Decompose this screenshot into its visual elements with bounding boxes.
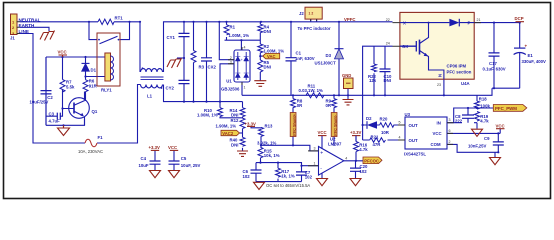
- IPM module U4A: [386, 12, 481, 87]
- svg-text:D3: D3: [326, 53, 332, 58]
- svg-text:5.5k: 5.5k: [66, 84, 75, 89]
- wire choke top left riser: [139, 22, 141, 72]
- svg-text:J1: J1: [10, 36, 15, 41]
- svg-text:CP06 IPM: CP06 IPM: [447, 64, 467, 69]
- capacitor E1 electrolytic: [514, 44, 546, 65]
- wire R40 to gnd: [242, 148, 244, 151]
- wire relay bypass left: [89, 22, 97, 40]
- svg-text:10uF, 25V: 10uF, 25V: [181, 163, 201, 168]
- resistor R17: [276, 168, 295, 179]
- wire GND port stub: [347, 89, 349, 100]
- wire U3 vcc line: [447, 129, 500, 134]
- svg-text:DCP: DCP: [515, 16, 524, 21]
- svg-text:222: 222: [455, 118, 463, 123]
- svg-text:1.00M, 1%: 1.00M, 1%: [197, 113, 218, 118]
- svg-text:1.90M, 1%: 1.90M, 1%: [216, 124, 237, 129]
- wire gnd power bus: [242, 88, 520, 95]
- svg-text:2: 2: [449, 140, 451, 144]
- svg-text:VPFC: VPFC: [344, 17, 355, 22]
- svg-text:C9: C9: [484, 136, 490, 141]
- ground bars under R5: [254, 81, 266, 87]
- capacitor C4: [139, 156, 161, 168]
- power plus3v3 C4: [149, 145, 160, 151]
- ground triangle opamp: [317, 179, 328, 186]
- svg-text:F1: F1: [98, 135, 104, 140]
- svg-text:10R: 10R: [381, 130, 390, 135]
- svg-text:3: 3: [230, 60, 232, 64]
- capacitor C7: [296, 170, 313, 180]
- svg-text:DNI: DNI: [231, 113, 238, 118]
- svg-text:10uF/25V: 10uF/25V: [30, 100, 49, 105]
- wire J2 pins to bus: [311, 19, 317, 22]
- capacitor C8: [455, 114, 474, 124]
- svg-text:IN: IN: [437, 121, 441, 126]
- wire analog gnd line: [256, 181, 302, 183]
- svg-text:102: 102: [360, 169, 368, 174]
- wire C1 branch: [290, 22, 292, 96]
- svg-text:OUT: OUT: [409, 123, 418, 128]
- wire R1 branch: [226, 22, 228, 40]
- svg-text:+: +: [525, 44, 528, 49]
- ground triangle C20: [350, 179, 361, 186]
- wire C6 drop: [255, 163, 257, 182]
- wire R10 stub: [219, 102, 221, 108]
- svg-text:C3: C3: [49, 111, 55, 116]
- wire C10 branch: [384, 46, 386, 95]
- power plus3v3 R16: [350, 130, 361, 141]
- capacitor C17: [483, 53, 506, 72]
- svg-text:R20: R20: [380, 117, 388, 122]
- wire R15 bottom line: [256, 158, 302, 172]
- svg-text:DNI: DNI: [264, 29, 271, 34]
- svg-text:DNI: DNI: [384, 78, 391, 83]
- wire fuse to choke: [97, 85, 141, 144]
- port GND: [342, 73, 353, 89]
- inductor L1 common mode choke: [141, 67, 164, 98]
- resistor R22: [368, 64, 377, 83]
- svg-text:91R: 91R: [89, 83, 98, 88]
- svg-text:330uF, 400V: 330uF, 400V: [522, 59, 546, 64]
- wire VCC rail relay: [46, 57, 105, 125]
- capacitor C3: [49, 111, 61, 123]
- svg-text:VCC: VCC: [58, 50, 67, 55]
- svg-text:4: 4: [399, 136, 401, 140]
- wire IPM N stub to bus: [443, 79, 445, 95]
- capacitor C6: [243, 169, 262, 179]
- earth symbol CY: [167, 58, 182, 68]
- wire R7 branch: [62, 57, 64, 109]
- svg-text:RT1: RT1: [115, 16, 124, 21]
- wire VAC stub: [260, 55, 262, 57]
- svg-text:LINE: LINE: [19, 29, 29, 34]
- wire AC2 line: [164, 85, 243, 102]
- svg-text:C17: C17: [489, 61, 497, 66]
- wire com gnd stub: [494, 152, 496, 157]
- wire Q1 base: [46, 109, 74, 117]
- wire U3 in line: [447, 108, 493, 123]
- wire CY1 CY2 branch: [183, 22, 185, 102]
- svg-text:0R: 0R: [326, 103, 332, 108]
- transistor Q1: [69, 92, 98, 126]
- connector J2: [298, 7, 331, 31]
- power VCC U3: [496, 123, 505, 128]
- net label VAC2: [221, 130, 240, 136]
- wire R13 top: [251, 126, 261, 127]
- wire PFC_PWM dcp stub: [519, 21, 521, 24]
- svg-text:C5: C5: [181, 156, 187, 161]
- svg-text:1 2: 1 2: [309, 12, 314, 16]
- svg-text:0.1uF, 630V: 0.1uF, 630V: [483, 67, 506, 72]
- wire gate line GX: [363, 46, 393, 140]
- resistor R5: [258, 60, 271, 72]
- wire shunt minus sense: [333, 95, 335, 146]
- wire C5 stub: [173, 151, 175, 171]
- svg-text:GND: GND: [342, 73, 351, 78]
- resistor R2: [258, 44, 284, 54]
- svg-text:0R: 0R: [297, 103, 303, 108]
- power port VPFC: [344, 17, 355, 22]
- svg-text:NEUTRAL: NEUTRAL: [19, 18, 41, 23]
- svg-text:1: 1: [314, 161, 316, 165]
- wire bridge plus stub: [240, 40, 242, 50]
- wire R21 line: [363, 139, 405, 141]
- wire VAC2 stub: [240, 132, 243, 134]
- svg-text:10uF: 10uF: [139, 163, 149, 168]
- svg-text:GBJ2506: GBJ2506: [221, 87, 240, 92]
- svg-text:VAC2: VAC2: [222, 131, 234, 136]
- svg-text:Q1: Q1: [92, 109, 98, 114]
- resistor R20: [380, 117, 394, 135]
- bridge rectifier U1: [221, 46, 250, 92]
- resistor R10: [197, 108, 223, 118]
- svg-text:102: 102: [243, 174, 251, 179]
- capacitor CY1: [167, 33, 190, 40]
- resistor R13: [257, 124, 277, 146]
- gate driver U3: [398, 112, 454, 157]
- ground triangle R19: [472, 129, 483, 136]
- wire D1 branch: [85, 57, 87, 101]
- ground bars under R40: [237, 151, 248, 156]
- capacitor C10: [380, 69, 392, 83]
- svg-text:102: 102: [305, 175, 313, 180]
- svg-text:D2: D2: [366, 116, 372, 121]
- wire C9 branch: [497, 133, 499, 152]
- capacitor CY2: [166, 80, 190, 90]
- diode D2: [366, 116, 377, 129]
- svg-text:RLY1: RLY1: [101, 88, 112, 93]
- capacitor C9: [468, 136, 504, 149]
- svg-text:VCC: VCC: [433, 131, 442, 136]
- resistor R21: [370, 135, 386, 148]
- svg-text:R21: R21: [371, 135, 379, 140]
- svg-text:+3.3V: +3.3V: [245, 121, 256, 126]
- wire P to DCP corner: [474, 23, 520, 89]
- resistor R9: [326, 99, 337, 109]
- svg-text:+3.3V: +3.3V: [350, 130, 361, 135]
- diode D1: [82, 63, 97, 72]
- svg-text:1nF, 630V: 1nF, 630V: [295, 56, 315, 61]
- wire relay bypass right: [120, 22, 130, 40]
- svg-text:2: 2: [230, 56, 232, 60]
- svg-text:PFC_PWM: PFC_PWM: [495, 106, 517, 111]
- resistor R12: [216, 118, 246, 129]
- wire R10 R14 join bar: [220, 117, 243, 119]
- svg-text:C4: C4: [141, 156, 147, 161]
- svg-text:3: 3: [314, 147, 316, 151]
- resistor R4: [258, 24, 271, 34]
- relay RLY1: [97, 33, 120, 93]
- net label PFC Shunt plus: [290, 113, 296, 137]
- svg-text:21: 21: [477, 18, 481, 22]
- wire AC2 riser to bridge: [220, 64, 234, 102]
- svg-text:23: 23: [437, 83, 441, 87]
- resistor R6: [83, 79, 98, 92]
- wire C20 drop: [355, 161, 357, 178]
- net label PFCOC: [363, 157, 382, 164]
- power VCC relay rail: [58, 50, 68, 58]
- wire bridge minus to gnd bus: [241, 82, 243, 95]
- svg-text:J2: J2: [299, 11, 304, 16]
- fuse F1: [78, 135, 103, 154]
- wire C7 bottom: [301, 175, 303, 181]
- wire C8 between: [467, 108, 469, 123]
- wire D3 branch: [338, 22, 340, 96]
- wire opamp vee stub: [321, 173, 323, 178]
- wire U3 com return: [447, 144, 498, 152]
- power VCC C5: [168, 145, 178, 151]
- svg-text:R3: R3: [199, 65, 205, 70]
- svg-text:PFC Shunt-: PFC Shunt-: [333, 114, 337, 135]
- power plus3v3 R13: [245, 121, 256, 126]
- svg-text:N: N: [438, 74, 443, 77]
- svg-text:L1: L1: [147, 94, 153, 99]
- svg-text:OUT: OUT: [409, 138, 418, 143]
- svg-text:10k, 1%: 10k, 1%: [264, 153, 280, 158]
- svg-text:COM: COM: [431, 142, 441, 147]
- resistor R3: [191, 51, 205, 70]
- svg-text:4.7k: 4.7k: [359, 147, 368, 152]
- wire earth stub CY: [177, 57, 184, 59]
- wire EARTH: [20, 27, 49, 31]
- wire R22 branch: [373, 46, 375, 95]
- wire C4 stub: [154, 151, 156, 171]
- resistor R14: [230, 108, 246, 118]
- svg-text:OC set to 465mV/15.5A: OC set to 465mV/15.5A: [266, 183, 310, 188]
- ground bars under GND port: [343, 100, 354, 105]
- svg-text:47R: 47R: [373, 142, 382, 147]
- resistor R19: [475, 112, 490, 124]
- svg-text:U3: U3: [405, 112, 411, 117]
- svg-text:CY2: CY2: [166, 86, 175, 91]
- shunt resistor R11: [299, 84, 325, 98]
- svg-text:0.03,1W, 1%: 0.03,1W, 1%: [299, 88, 324, 93]
- svg-text:R1: R1: [230, 25, 236, 30]
- svg-text:D1: D1: [91, 68, 97, 73]
- svg-text:4: 4: [345, 156, 347, 160]
- capacitor C20: [350, 164, 368, 174]
- capacitor C5: [169, 156, 201, 168]
- svg-text:10A, 230VAC: 10A, 230VAC: [78, 149, 103, 154]
- wire sense bar: [225, 39, 261, 41]
- capacitor CX2: [201, 58, 216, 70]
- svg-text:U1: U1: [226, 78, 232, 83]
- wire D2 R20 line: [363, 124, 405, 126]
- capacitor C1: [286, 51, 315, 62]
- resistor R1: [224, 25, 249, 38]
- svg-text:DNI: DNI: [264, 64, 271, 69]
- net label VAC: [263, 53, 280, 59]
- svg-text:100k: 100k: [480, 103, 490, 108]
- wire opamp output: [344, 160, 363, 162]
- svg-text:R13: R13: [265, 124, 273, 129]
- wire R18 to bus: [476, 95, 478, 101]
- wire coil bottom: [86, 76, 105, 78]
- svg-text:4.7k: 4.7k: [480, 119, 489, 124]
- wire R14 stub: [242, 102, 244, 108]
- wire R4 R2 R5 column: [259, 22, 261, 81]
- earth symbol input: [40, 31, 55, 41]
- svg-text:4: 4: [244, 46, 246, 50]
- svg-text:5: 5: [399, 121, 401, 125]
- svg-text:DNI: DNI: [231, 142, 238, 147]
- svg-text:CY1: CY1: [167, 35, 176, 40]
- opamp U2: [308, 137, 347, 175]
- svg-text:1.00M, 1%: 1.00M, 1%: [264, 49, 285, 54]
- wire R19 bottom gnd stub: [476, 123, 478, 129]
- svg-text:PFC Shunt+: PFC Shunt+: [292, 113, 296, 135]
- wire R16 branch: [355, 136, 357, 161]
- svg-text:PFC section: PFC section: [447, 70, 472, 75]
- svg-text:10nF,25V: 10nF,25V: [468, 144, 487, 149]
- svg-text:VCC: VCC: [168, 145, 177, 150]
- wire NEUTRAL bus: [20, 21, 140, 23]
- svg-text:R12: R12: [231, 118, 239, 123]
- wire R13 R15 junction to opamp: [261, 136, 319, 151]
- power port DCP: [515, 16, 525, 22]
- svg-text:EARTH: EARTH: [19, 23, 36, 28]
- diode D3: [315, 49, 344, 66]
- wire LINE: [20, 34, 85, 144]
- wire R3 branch: [193, 22, 195, 102]
- svg-text:PFCOC: PFCOC: [364, 158, 379, 163]
- connector J1: [10, 14, 20, 41]
- svg-text:22: 22: [386, 18, 390, 22]
- svg-text:E1: E1: [528, 53, 534, 58]
- thermistor RT1: [98, 16, 123, 25]
- svg-text:24: 24: [386, 42, 390, 46]
- svg-text:6: 6: [449, 129, 451, 133]
- power VCC opamp: [318, 130, 327, 135]
- svg-text:CX2: CX2: [208, 65, 217, 70]
- ground triangle analog: [254, 182, 265, 189]
- ground triangle C9: [490, 158, 501, 165]
- capacitor C2: [30, 57, 54, 125]
- resistor R18: [475, 97, 491, 109]
- wire CX2 branch: [206, 22, 208, 102]
- svg-text:+3.3V: +3.3V: [149, 145, 160, 150]
- ground triangle C4: [150, 171, 161, 178]
- svg-text:12k: 12k: [369, 78, 377, 83]
- wire R17 drop: [277, 163, 279, 182]
- resistor R7: [60, 80, 75, 93]
- svg-text:To PFC inductor: To PFC inductor: [298, 26, 331, 31]
- wire opamp minus input: [302, 165, 319, 167]
- svg-text:U4A: U4A: [461, 81, 470, 86]
- wire opamp vcc stub: [321, 136, 323, 149]
- wire AC1 riser to bridge: [219, 22, 234, 60]
- svg-text:C1: C1: [296, 51, 302, 56]
- ground under Q1: [58, 125, 70, 135]
- wire choke top right riser to output bus: [164, 22, 393, 72]
- svg-text:1.00M, 1%: 1.00M, 1%: [229, 33, 250, 38]
- svg-text:VCC: VCC: [318, 130, 327, 135]
- svg-text:+: +: [320, 151, 323, 157]
- resistor R15: [258, 147, 280, 158]
- svg-text:3: 3: [449, 118, 451, 122]
- svg-text:1: 1: [244, 86, 246, 90]
- resistor R8: [291, 99, 304, 109]
- svg-text:4.7uF: 4.7uF: [49, 118, 61, 123]
- net label PFC_PWM: [493, 105, 527, 112]
- wire Q1 emitter rail: [46, 119, 85, 125]
- svg-text:US1J00CT: US1J00CT: [315, 61, 337, 66]
- wire C17 branch: [493, 23, 495, 89]
- svg-text:1k, 1%: 1k, 1%: [281, 174, 295, 179]
- svg-text:VAC: VAC: [267, 54, 276, 59]
- ground triangle C5: [169, 171, 180, 178]
- svg-text:R18: R18: [479, 97, 487, 102]
- wire shunt plus sense: [292, 95, 294, 145]
- resistor R40: [230, 137, 246, 147]
- net label PFC Shunt minus: [331, 113, 337, 137]
- resistor R16: [354, 142, 369, 153]
- svg-text:LM397: LM397: [328, 142, 342, 147]
- wire R12 to R40: [242, 129, 244, 138]
- svg-text:IXS4427SL: IXS4427SL: [404, 151, 426, 156]
- svg-text:VCC: VCC: [496, 123, 505, 128]
- svg-text:3.92k, 1%: 3.92k, 1%: [257, 140, 277, 145]
